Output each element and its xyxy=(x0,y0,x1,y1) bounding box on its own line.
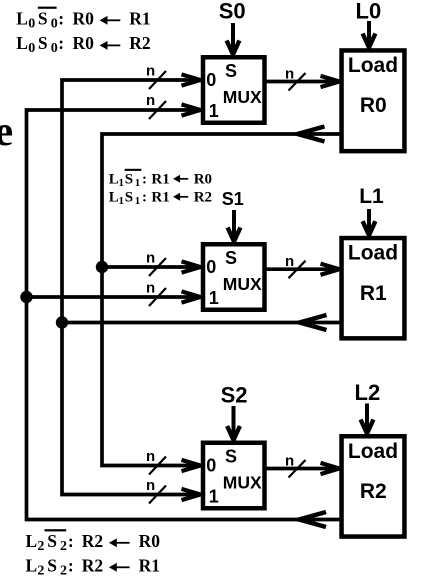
wire: S2 select arrow xyxy=(227,406,240,440)
arrow glyph line 2 xyxy=(100,41,121,50)
svg-text:n: n xyxy=(146,280,155,297)
wire: R1 feedback to bus xyxy=(62,321,340,325)
arrowhead: MUX1 input0 xyxy=(182,261,201,272)
svg-text:1: 1 xyxy=(209,101,219,121)
svg-text:S2: S2 xyxy=(221,383,248,408)
arrowhead: R2 feedback (leftward) xyxy=(299,512,326,527)
bus width marker n (MUX0 input0) xyxy=(146,63,166,89)
overline on S1 xyxy=(125,169,142,171)
arrowhead: R2 data input xyxy=(321,463,340,474)
arrowhead: R1 data input xyxy=(321,264,340,275)
arrowhead: MUX0 input0 xyxy=(182,74,201,85)
svg-text:L1S1:R1R2: L1S1:R1R2 xyxy=(109,190,212,208)
arrow glyph bottom line 2 xyxy=(109,563,130,572)
svg-text:S: S xyxy=(225,61,237,81)
wire: MUX2 output to R2 xyxy=(265,467,338,471)
mux U2 (middle) xyxy=(203,244,265,310)
wire: MUX1 output to R1 xyxy=(265,267,338,271)
register R1 xyxy=(342,238,405,338)
annotation: L0/S0 transfer equations xyxy=(16,9,150,57)
svg-text:n: n xyxy=(146,477,155,494)
wire: branch R0out to MUX1 input0 xyxy=(102,265,199,269)
svg-text:1: 1 xyxy=(209,487,219,507)
svg-text:0: 0 xyxy=(206,456,216,476)
svg-text:MUX: MUX xyxy=(223,87,262,107)
wire: net R2out bus (R2 feedback to MUX0 input1) xyxy=(27,110,340,520)
wire: L1 load arrow xyxy=(363,209,376,235)
annotation: L1/S1 transfer equations xyxy=(109,172,212,208)
svg-text:S: S xyxy=(225,446,237,466)
arrowhead: MUX2 input1 xyxy=(182,489,201,500)
mux U1 (top) xyxy=(203,57,265,123)
wire: net R1out bus (R1 to MUX0 input0 and MUX2 input1) xyxy=(62,80,199,495)
bus width marker n (MUX0 output) xyxy=(285,66,306,91)
svg-text:1: 1 xyxy=(209,288,219,308)
junction: R0out to MUX1 xyxy=(96,261,108,273)
arrowhead: MUX2 input0 xyxy=(182,460,201,471)
arrowhead: MUX1 input1 xyxy=(182,291,201,302)
register R2 xyxy=(342,436,405,536)
arrow glyph mid line 1 xyxy=(173,175,188,183)
svg-text:S1: S1 xyxy=(222,189,244,209)
svg-text:n: n xyxy=(285,253,294,270)
wire: L2 load arrow xyxy=(361,404,374,434)
arrowhead: R1 feedback (leftward) xyxy=(300,315,327,330)
bus width marker n (MUX2 output) xyxy=(285,453,306,478)
bus width marker n (MUX2 input1) xyxy=(146,477,166,503)
arrowhead: R0 feedback (leftward) xyxy=(298,127,325,142)
wire: net R0out bus (R0 feedback to MUX2 input0) xyxy=(102,134,340,466)
wire: S0 select arrow xyxy=(227,23,240,55)
overline on S0 xyxy=(38,7,57,9)
svg-text:n: n xyxy=(146,448,155,465)
svg-text:L1: L1 xyxy=(359,185,384,208)
svg-text:S0: S0 xyxy=(219,0,246,24)
bus width marker n (MUX1 output) xyxy=(285,253,306,278)
svg-text:n: n xyxy=(146,63,155,80)
arrowhead: MUX0 input1 xyxy=(182,104,201,115)
svg-text:n: n xyxy=(146,250,155,267)
annotation: L2/S2 transfer equations xyxy=(26,531,161,579)
svg-text:Load: Load xyxy=(348,54,398,77)
svg-text:n: n xyxy=(285,66,294,83)
junction: R1 feedback on bus xyxy=(56,316,68,328)
svg-text:Load: Load xyxy=(348,440,398,463)
svg-text:R2: R2 xyxy=(360,480,387,503)
wire: S1 select arrow xyxy=(228,210,241,242)
arrow glyph line 1 xyxy=(100,16,121,25)
svg-text:R0: R0 xyxy=(360,94,387,117)
arrow glyph mid line 2 xyxy=(173,193,188,201)
svg-text:MUX: MUX xyxy=(223,473,262,493)
bus width marker n (MUX2 input0) xyxy=(146,448,166,474)
arrow glyph bottom line 1 xyxy=(109,538,130,547)
wire: L0 load arrow xyxy=(363,21,376,48)
svg-text:S: S xyxy=(225,248,237,268)
svg-text:L2: L2 xyxy=(355,380,381,405)
svg-text:R1: R1 xyxy=(360,282,387,305)
junction: R2out to MUX1 xyxy=(20,291,32,303)
svg-text:0: 0 xyxy=(206,70,216,90)
wire: branch R2out to MUX1 input1 xyxy=(27,295,200,299)
mux U3 (bottom) xyxy=(203,443,265,509)
arrowhead: R0 data input xyxy=(321,76,340,87)
svg-text:n: n xyxy=(285,453,294,470)
wire: MUX0 output to R0 xyxy=(265,80,338,84)
svg-text:e: e xyxy=(0,109,13,155)
register R0 xyxy=(342,50,405,151)
bus width marker n (MUX1 input1) xyxy=(146,280,166,306)
svg-text:MUX: MUX xyxy=(223,274,262,294)
overline on S2 xyxy=(45,529,67,531)
svg-text:n: n xyxy=(146,92,155,109)
svg-text:L0: L0 xyxy=(356,0,382,24)
svg-text:L1S1:R1R0: L1S1:R1R0 xyxy=(109,172,212,190)
bus width marker n (MUX1 input0) xyxy=(146,250,166,276)
svg-text:Load: Load xyxy=(348,242,398,265)
svg-text:0: 0 xyxy=(206,257,216,277)
bus width marker n (MUX0 input1) xyxy=(146,92,166,119)
